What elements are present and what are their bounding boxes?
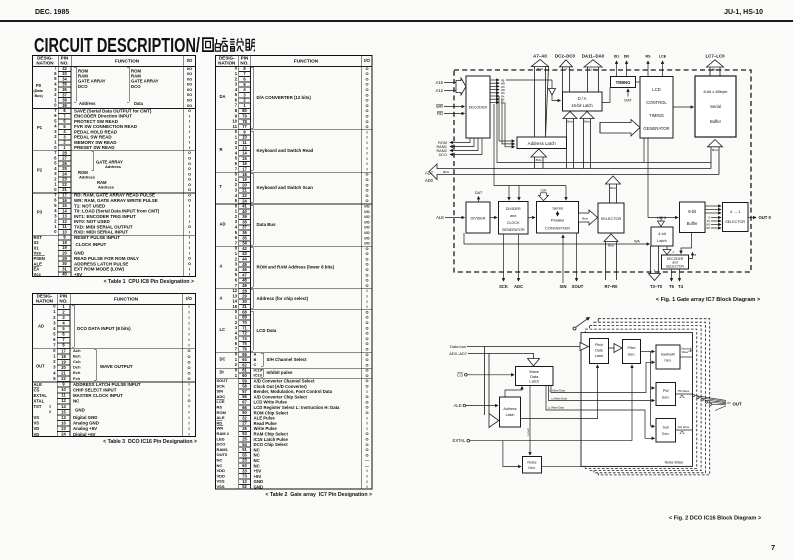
wire into converter top bbox=[565, 186, 567, 201]
svg-text:LS0: LS0 bbox=[541, 189, 547, 193]
divider block bbox=[466, 202, 490, 233]
sub wave output bbox=[676, 425, 693, 434]
svg-text:Gen.: Gen. bbox=[528, 466, 536, 470]
wires EXTAL up into pitch gen bbox=[631, 365, 633, 441]
svg-text:AD0–AD7: AD0–AD7 bbox=[449, 351, 468, 356]
svg-text:< Fig. 1 Gate array IC7 Bloc: < Fig. 1 Gate array IC7 Block Diagram > bbox=[656, 297, 761, 303]
bus DC2-DC0 up arrow bbox=[560, 60, 573, 92]
svg-text:T5: T5 bbox=[669, 284, 675, 289]
svg-text:< Fig. 2 DCO IC16 Block Diag: < Fig. 2 DCO IC16 Block Diagram > bbox=[669, 516, 762, 522]
svg-text:4-bit: 4-bit bbox=[658, 231, 666, 236]
wire pitch gen to sawtooth gen bbox=[641, 351, 655, 353]
svg-text:Gen.: Gen. bbox=[662, 432, 670, 436]
bus A7-A0 up arrow to address latch bbox=[532, 60, 549, 138]
svg-text:TIMING: TIMING bbox=[649, 113, 664, 118]
wire T4 output bbox=[678, 269, 684, 289]
inverter on DC write strobe bbox=[506, 80, 561, 101]
wire data bus to wave data latch bbox=[468, 354, 540, 367]
LSB 8 wire into 8-bit buffer bbox=[648, 158, 678, 220]
svg-text:PW Wave: PW Wave bbox=[678, 389, 690, 393]
noise generator bbox=[523, 457, 542, 474]
svg-text:8bits: 8bits bbox=[582, 217, 588, 221]
net label LCE bbox=[659, 55, 667, 59]
svg-text:DAT: DAT bbox=[475, 190, 483, 195]
svg-text:Buffer: Buffer bbox=[687, 221, 698, 226]
svg-text:OUT: OUT bbox=[733, 401, 742, 406]
pin label AD0 bbox=[425, 178, 434, 183]
svg-text:Pitch: Pitch bbox=[628, 346, 636, 350]
svg-text:RD: RD bbox=[437, 111, 443, 116]
DAT label at divider bbox=[475, 190, 483, 202]
wave data latch bbox=[516, 367, 554, 386]
svg-text:GENERATOR: GENERATOR bbox=[502, 228, 525, 232]
svg-text:SOUT: SOUT bbox=[572, 284, 584, 289]
chip select label DCO bbox=[439, 153, 447, 157]
caption Fig.2 bbox=[669, 516, 762, 522]
net label DC2-DC0 bbox=[555, 54, 576, 59]
svg-text:8bits: 8bits bbox=[443, 170, 450, 174]
svg-text:WS: WS bbox=[706, 225, 710, 227]
svg-text:Latch: Latch bbox=[529, 379, 539, 384]
wire EXTAL master clock bbox=[470, 440, 632, 442]
svg-text:DAT: DAT bbox=[624, 99, 632, 103]
wire WR to decoder bbox=[444, 106, 465, 108]
bus R7-R0 into selector bottom bbox=[604, 234, 618, 280]
output fan from six channels bbox=[693, 394, 727, 410]
pin label R7-R0 bbox=[604, 284, 618, 289]
svg-text:SIN: SIN bbox=[560, 284, 567, 289]
svg-text:TIMING: TIMING bbox=[616, 80, 631, 85]
svg-text:WR: WR bbox=[436, 104, 443, 109]
bus branch up to D/A latch left bbox=[563, 112, 577, 169]
svg-text:OUT 0: OUT 0 bbox=[759, 215, 772, 220]
svg-text:R7–R0: R7–R0 bbox=[604, 284, 618, 289]
svg-text:Gen.: Gen. bbox=[664, 359, 671, 363]
4 to 1 selector bbox=[723, 203, 749, 232]
D/A 16-bit latch bbox=[563, 92, 603, 111]
svg-text:Wave: Wave bbox=[682, 350, 689, 354]
wire DI1 from timing bbox=[616, 61, 618, 77]
wire clock gen to converter bbox=[528, 217, 535, 219]
net label DA11-DA0 bbox=[582, 54, 605, 59]
timing block bbox=[611, 77, 636, 88]
svg-text:LCD: LCD bbox=[652, 87, 660, 92]
svg-text:D / A: D / A bbox=[578, 96, 587, 101]
svg-text:CS: CS bbox=[457, 372, 463, 377]
bus serial buffer bottom to internal bus bbox=[708, 140, 723, 175]
bus converter to selector bbox=[579, 210, 598, 225]
caption Fig.1 bbox=[656, 297, 761, 303]
net label DI1 bbox=[614, 55, 620, 59]
header model bbox=[663, 9, 763, 16]
wire RD to decoder bbox=[444, 113, 465, 115]
svg-text:DCO: DCO bbox=[439, 153, 447, 157]
Table 1 CPU IC8 pin designation bbox=[32, 55, 196, 277]
Table 2 Gate array IC7 pin designation bbox=[215, 55, 373, 490]
LS0 load/shift arrow bbox=[539, 189, 549, 201]
svg-text:AD0: AD0 bbox=[425, 178, 434, 183]
wire T5 output bbox=[669, 269, 675, 289]
svg-text:Data bus: Data bus bbox=[450, 344, 466, 349]
wire RS from LCD generator bbox=[647, 61, 649, 77]
wire divider to clock generator bbox=[490, 217, 497, 219]
wire SCK output bbox=[499, 234, 508, 289]
bus AD vertical to address latch bbox=[485, 347, 499, 428]
svg-text:RS: RS bbox=[646, 55, 652, 59]
svg-text:8bits: 8bits bbox=[712, 67, 719, 71]
svg-text:WA: WA bbox=[634, 240, 640, 244]
sawtooth wave output bbox=[680, 347, 693, 358]
svg-text:4 → 1: 4 → 1 bbox=[730, 209, 741, 214]
svg-text:DA11–DA0: DA11–DA0 bbox=[582, 54, 605, 59]
svg-text:A15: A15 bbox=[436, 80, 444, 85]
svg-text:DI0: DI0 bbox=[624, 55, 630, 59]
wire A15/A12 into decoder bbox=[444, 78, 466, 95]
wire OUT0 output bbox=[748, 215, 772, 220]
header date bbox=[35, 9, 69, 16]
Fig.2 DCO IC16 block diagram bbox=[420, 310, 793, 535]
net label LC7-LC0 bbox=[705, 54, 725, 59]
svg-text:PW: PW bbox=[663, 389, 669, 393]
pin label CS bbox=[457, 372, 467, 377]
page title kanji (drawn glyphs) bbox=[202, 37, 255, 53]
svg-text:T3–T0: T3–T0 bbox=[650, 284, 663, 289]
svg-text:ALE: ALE bbox=[454, 403, 462, 408]
svg-text:8bits: 8bits bbox=[712, 148, 719, 152]
svg-text:ADC: ADC bbox=[514, 284, 523, 289]
pitch trunk to PW and Sub gens bbox=[651, 352, 655, 427]
selector block bbox=[598, 203, 624, 233]
svg-text:EXTAL: EXTAL bbox=[453, 438, 467, 443]
svg-text:CONVERTER: CONVERTER bbox=[545, 226, 570, 231]
bus DA11-DA0 up arrow bbox=[584, 60, 602, 92]
wire address latch to pitch data latch bbox=[521, 365, 598, 419]
pitch generator bbox=[623, 340, 641, 364]
svg-text:Parallel: Parallel bbox=[551, 218, 564, 223]
decoder and selector bbox=[662, 255, 689, 269]
wire EXTAL branch to noise gen bbox=[503, 441, 521, 467]
wire CS to wave data latch bbox=[467, 374, 514, 376]
divider and clock generator bbox=[499, 202, 529, 235]
serial/parallel converter bbox=[537, 202, 579, 234]
bus AD7-AD0 main data bus bbox=[429, 164, 719, 180]
sub oscillator generator bbox=[656, 419, 676, 443]
wire WA into 4-bit latch bbox=[464, 233, 650, 244]
8-bit x 80byte serial buffer bbox=[695, 76, 736, 137]
svg-text:SCK: SCK bbox=[499, 284, 508, 289]
svg-text:8bits: 8bits bbox=[536, 158, 543, 162]
svg-text:and: and bbox=[510, 214, 516, 218]
svg-text:⌈1 Wave Data: ⌈1 Wave Data bbox=[549, 389, 565, 393]
address latch bbox=[517, 137, 567, 149]
wire ALE to address latch bbox=[466, 405, 498, 407]
svg-text:Serial: Serial bbox=[710, 104, 721, 109]
PW wave output bbox=[676, 389, 693, 398]
wires decoder to chip select outputs bbox=[450, 138, 482, 155]
wire band under decoder bbox=[494, 93, 711, 186]
caption table 3 bbox=[60, 440, 197, 445]
svg-text:A12: A12 bbox=[436, 88, 444, 93]
svg-text:Latch: Latch bbox=[657, 238, 667, 243]
svg-text:SELECTOR: SELECTOR bbox=[666, 265, 684, 269]
page title bbox=[34, 36, 200, 56]
svg-text:Latch: Latch bbox=[595, 354, 604, 358]
svg-text:Serial: Serial bbox=[552, 206, 562, 211]
Fig.1 Gate array IC7 block diagram bbox=[400, 45, 793, 310]
net label A7-A0 bbox=[533, 54, 547, 59]
svg-text:Latch: Latch bbox=[506, 413, 515, 417]
svg-text:CONTROL: CONTROL bbox=[646, 100, 667, 105]
svg-text:Sawtooth: Sawtooth bbox=[681, 347, 692, 351]
svg-text:Buffer: Buffer bbox=[710, 119, 722, 124]
svg-text:8bits: 8bits bbox=[610, 186, 617, 190]
svg-text:DC2–DC0: DC2–DC0 bbox=[555, 54, 576, 59]
svg-text:8bits: 8bits bbox=[584, 120, 591, 124]
svg-text:Address: Address bbox=[503, 407, 516, 411]
wires 8-bit buffer to 4-1 selector bbox=[705, 206, 721, 213]
dashed boundary of gate array IC7 bbox=[454, 70, 751, 272]
svg-text:3: 3 bbox=[565, 67, 567, 71]
address latch (DCO) bbox=[500, 397, 521, 427]
page number bbox=[771, 544, 775, 552]
wire address latch to wave data latch bbox=[505, 387, 522, 398]
svg-text:8-bit: 8-bit bbox=[688, 209, 697, 214]
svg-text:DIVIDER: DIVIDER bbox=[471, 217, 486, 221]
svg-text:Noise Wave: Noise Wave bbox=[665, 460, 684, 464]
wire buffer bottom to decoder/selector bbox=[681, 233, 692, 254]
pin label A12 bbox=[436, 88, 444, 93]
svg-text:Sub: Sub bbox=[662, 426, 668, 430]
svg-text:Gen.: Gen. bbox=[662, 396, 670, 400]
svg-text:DI1: DI1 bbox=[614, 55, 620, 59]
wire ALE to divider bbox=[445, 217, 465, 219]
pin label OUT bbox=[727, 401, 742, 406]
header rule bbox=[0, 20, 793, 23]
pin label A15 bbox=[436, 80, 444, 85]
svg-text:16-bit Latch: 16-bit Latch bbox=[571, 103, 593, 108]
pin label WR bbox=[436, 104, 443, 109]
feedback loop label 8 bbox=[689, 253, 697, 259]
svg-text:4: 4 bbox=[673, 250, 675, 254]
svg-text:ALE: ALE bbox=[436, 215, 444, 220]
svg-text:DECODER: DECODER bbox=[469, 106, 488, 110]
8-bit buffer bbox=[680, 202, 706, 233]
wire LCD generator to serial buffer bbox=[673, 106, 694, 108]
svg-text:8bits: 8bits bbox=[567, 120, 574, 124]
net label DI0 bbox=[624, 55, 630, 59]
chip select label ROM bbox=[438, 141, 447, 145]
wires into clock generator top bbox=[509, 186, 519, 201]
pin label AD7 bbox=[425, 171, 434, 176]
svg-text:Sawtooth: Sawtooth bbox=[661, 353, 675, 357]
wire timing to LCD generator bbox=[636, 81, 641, 83]
svg-text:RS: RS bbox=[707, 221, 711, 223]
svg-text:DIVIDER: DIVIDER bbox=[506, 207, 521, 211]
channel stack dashed boxes (6 DCO channels) bbox=[581, 319, 710, 475]
bus LC7-LC0 up arrow from serial buffer bbox=[707, 60, 724, 76]
bus 4-bit latch to decoder/selector bbox=[663, 246, 675, 255]
strobe wires E RS WS WD into selector bbox=[706, 218, 721, 231]
PW generator bbox=[656, 383, 676, 406]
bus branch up to address latch bbox=[531, 149, 547, 169]
svg-text:LCE: LCE bbox=[659, 55, 667, 59]
arrow into 4-bit latch top bbox=[658, 218, 665, 227]
caption table 1 bbox=[60, 280, 194, 285]
bus selector top to data bus bbox=[606, 176, 621, 203]
caption table 2 bbox=[230, 493, 372, 498]
pin label T3-T0 bbox=[650, 284, 663, 289]
svg-text:Address Latch: Address Latch bbox=[528, 141, 557, 146]
channel select wiper bbox=[573, 317, 590, 330]
noise wave output line bbox=[542, 460, 693, 466]
svg-text:Gen.: Gen. bbox=[628, 353, 636, 357]
chip select label RAM1 bbox=[436, 145, 447, 149]
svg-text:CS: CS bbox=[501, 102, 505, 105]
svg-text:SELECTOR: SELECTOR bbox=[601, 217, 622, 221]
bus pitch data latch to pitch gen bbox=[609, 344, 623, 353]
wire data bus to pitch data latch bbox=[467, 343, 589, 351]
wire SOUT output bbox=[572, 233, 584, 289]
bus branch up to D/A latch right bbox=[580, 112, 594, 169]
svg-text:12 bits: 12 bits bbox=[589, 67, 598, 71]
svg-text:Data: Data bbox=[595, 349, 603, 353]
pin label Data bus AD0-AD7 bbox=[449, 344, 468, 356]
pin label ALE bbox=[454, 403, 466, 408]
chip select label RAM2 bbox=[436, 149, 447, 153]
svg-text:⌊L Wave Data: ⌊L Wave Data bbox=[548, 406, 564, 410]
wire level to noise gen bbox=[526, 386, 530, 456]
svg-text:8: 8 bbox=[695, 253, 697, 257]
DAT label at timing bbox=[624, 89, 632, 103]
svg-text:8bits: 8bits bbox=[537, 67, 544, 71]
bus big arrow into LCD generator bbox=[600, 120, 640, 137]
4-bit latch bbox=[651, 227, 673, 246]
svg-text:LSB 8: LSB 8 bbox=[657, 216, 666, 220]
bus T3-T0 output bbox=[649, 246, 661, 281]
pin label ALE bbox=[436, 215, 444, 220]
svg-text:GENERATOR: GENERATOR bbox=[643, 126, 669, 131]
svg-text:Sub Wave: Sub Wave bbox=[678, 425, 690, 429]
pin label EXTAL bbox=[453, 438, 470, 443]
decoder output stubs bbox=[490, 79, 505, 104]
svg-text:Noise: Noise bbox=[527, 461, 536, 465]
wire SIN input bbox=[560, 235, 567, 289]
Table 3 DCO IC16 pin designation bbox=[32, 293, 196, 437]
wire into address latch left bbox=[499, 96, 515, 147]
LCD control timing generator bbox=[640, 77, 673, 139]
net label RS bbox=[646, 55, 652, 59]
pin label RD bbox=[437, 111, 443, 116]
wire LCE from LCD generator bbox=[662, 61, 664, 77]
wire D/A latch to timing bbox=[602, 88, 610, 103]
pitch data latch bbox=[590, 339, 609, 364]
svg-text:A7–A0: A7–A0 bbox=[533, 54, 547, 59]
svg-text:LC7–LC0: LC7–LC0 bbox=[705, 54, 725, 59]
svg-text:E: E bbox=[708, 218, 710, 220]
svg-text:Level: Level bbox=[526, 428, 530, 436]
wire ADC output bbox=[514, 234, 523, 289]
svg-text:8-bit x 80byte: 8-bit x 80byte bbox=[703, 89, 728, 94]
sawtooth generator bbox=[656, 345, 680, 369]
svg-text:⌉u Wave Data: ⌉u Wave Data bbox=[551, 397, 567, 401]
wire DI0 from timing bbox=[626, 61, 628, 77]
decoder U-DEC bbox=[466, 76, 490, 138]
svg-text:SELECTOR: SELECTOR bbox=[725, 220, 745, 224]
svg-text:T4: T4 bbox=[678, 284, 684, 289]
svg-text:CLOCK: CLOCK bbox=[507, 221, 520, 225]
svg-text:WD: WD bbox=[706, 228, 710, 230]
wave data wires to generators bbox=[546, 362, 655, 438]
svg-text:Pitch: Pitch bbox=[595, 343, 603, 347]
